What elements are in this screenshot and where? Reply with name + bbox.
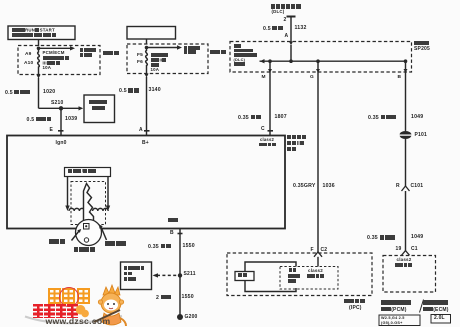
transceiver label <box>49 239 65 246</box>
pin E <box>50 128 54 133</box>
ECM box (dashed) <box>383 256 436 293</box>
arrow S210 to distribution box <box>61 107 79 109</box>
ignition key blade <box>84 184 94 222</box>
arrow to distribution diagram (box1) <box>39 47 71 49</box>
pin B tick <box>178 233 183 235</box>
pin M <box>262 75 266 80</box>
class2 inner dashed box (IPC) <box>280 267 338 290</box>
arrow to distribution diagram (box2) <box>147 47 178 49</box>
pin F6 <box>137 60 143 65</box>
distribution diagram box <box>84 95 115 123</box>
fuse F2 symbol <box>146 48 148 70</box>
pin A tick <box>144 130 150 132</box>
transponder chip <box>84 224 90 230</box>
inline connector P101 <box>400 131 412 139</box>
splice S210 <box>51 101 63 106</box>
to distribution (box1) <box>80 48 97 53</box>
wire out of fuse box 1 <box>38 71 40 75</box>
wire out of fuse box 2 <box>146 69 148 74</box>
fuse block label 1 <box>103 51 119 58</box>
label class2 serial (module) <box>260 138 274 143</box>
pin F5 <box>137 53 143 58</box>
watermark url <box>46 317 111 326</box>
connector C1 chevron <box>402 251 410 256</box>
connector C101 chevron <box>402 186 410 191</box>
wire header-to-fusebox2 <box>146 39 148 44</box>
label B+ <box>142 141 149 146</box>
to distribution (box2) <box>184 46 201 51</box>
instrument cluster IPC box (dashed) <box>227 253 372 296</box>
wire 1049 dark green (upper) <box>368 115 396 122</box>
pin F <box>311 248 314 253</box>
splice pack label <box>414 41 429 47</box>
splice pack SP205 (dashed) <box>230 42 412 73</box>
fuse block label 2 <box>210 50 226 57</box>
security telltale box <box>235 272 254 281</box>
class2 serial (IPC) <box>308 269 323 274</box>
key head circle <box>76 220 102 246</box>
wire B to C101 (1049) <box>405 72 407 131</box>
fuse box 1 (dashed) <box>18 46 100 75</box>
wire 1039 pink <box>27 117 52 124</box>
distribution box text <box>89 100 107 105</box>
ground wire 1550 <box>179 229 181 318</box>
pin A <box>285 34 289 39</box>
indicator loop wire <box>245 262 296 292</box>
wire DLC to SP205 <box>290 17 292 42</box>
PCM name <box>381 300 412 306</box>
node B junction <box>404 59 408 63</box>
pin A (module) <box>139 128 143 133</box>
key confirmation (immobilizer) module box <box>7 136 285 229</box>
watermark: zhao xin pian <box>47 287 49 289</box>
connector C2 chevron <box>314 252 322 257</box>
connector P101 label <box>415 133 427 138</box>
ground distribution box text <box>124 266 145 271</box>
DLC title <box>271 4 302 10</box>
watermark pointer hand <box>76 303 89 318</box>
ground G200 label <box>185 315 198 320</box>
empty header box <box>127 27 176 40</box>
ground distribution box <box>121 262 152 290</box>
node M junction <box>268 59 272 63</box>
class2 serial (ECM) <box>397 258 412 263</box>
exciter coil left <box>69 208 85 211</box>
exciter coil right <box>93 208 109 211</box>
note: hot in RUN/START <box>12 28 55 33</box>
fuse F1 symbol <box>38 48 40 70</box>
fuse2 name <box>151 53 169 58</box>
wire 1049 dark green (lower) <box>367 235 395 242</box>
SP205 note <box>234 44 242 48</box>
pin 19 / connector C1 <box>396 247 402 252</box>
security label <box>238 273 248 279</box>
wire 1807 purple <box>238 115 261 122</box>
fuse box 2 (dashed) <box>127 44 208 74</box>
watermark: weiku yixia <box>32 303 34 305</box>
ECM name <box>423 300 448 306</box>
pin B <box>398 75 402 80</box>
label Ign0 <box>56 141 67 146</box>
wire 1132 purple <box>263 26 283 33</box>
watermark swoosh <box>25 316 122 323</box>
IPC name <box>344 299 365 306</box>
node G junction <box>316 59 320 63</box>
bus wire in SP205 <box>260 60 406 62</box>
PCM/ECM label slash <box>420 300 424 313</box>
key ring hole <box>84 238 88 242</box>
fuse1 name <box>43 51 65 56</box>
pin G <box>310 75 314 80</box>
connector C2 <box>321 248 328 253</box>
leader line ignition switch <box>101 227 107 240</box>
wire G to IPC (1036) <box>317 72 319 252</box>
dashed arrow S211 to ground distribution box <box>157 274 177 276</box>
exciter legs <box>67 177 69 206</box>
splice S211 <box>184 272 196 277</box>
wire note-to-fusebox1 <box>38 40 40 47</box>
engine codes <box>381 316 405 320</box>
engine option box 2 <box>431 315 451 324</box>
pin R / connector C101 <box>396 184 400 189</box>
pin 2 <box>284 18 287 23</box>
wire 1020 pink <box>5 90 30 97</box>
wire A drop <box>290 45 292 61</box>
power note box <box>8 26 75 40</box>
wire 3140 orange <box>119 88 139 95</box>
wire M to C (purple 1807) <box>269 72 271 136</box>
pin C <box>261 127 265 132</box>
wire 1550 black (lower) <box>156 295 171 302</box>
ignition indicator control text <box>289 268 297 273</box>
junction in fuse box 1 <box>37 47 41 51</box>
wire 1550 black (upper) <box>148 244 171 251</box>
wire 1036 gray <box>293 184 316 190</box>
pin A10 <box>24 61 33 66</box>
wire S210 to pin E <box>60 108 62 135</box>
junction in fuse box 2 <box>145 46 149 50</box>
watermark mascot <box>94 285 126 326</box>
pin A9 <box>25 52 32 57</box>
ignition key label <box>74 247 96 254</box>
node S210 <box>39 107 62 109</box>
node S211 <box>178 273 182 277</box>
label ground (module) <box>168 218 179 225</box>
ground G200 <box>177 314 183 320</box>
engine option box 1 <box>379 315 420 326</box>
pin B (ground) <box>170 231 174 236</box>
transceiver dashed box <box>71 182 106 225</box>
exciter/receiver label <box>68 169 97 175</box>
exciter/receiver label box <box>65 168 111 177</box>
module name <box>287 135 307 141</box>
ignition switch label <box>105 241 127 248</box>
DLC connector bar <box>287 16 296 18</box>
leader line transceiver <box>72 231 80 241</box>
watermark red circle <box>59 287 79 307</box>
